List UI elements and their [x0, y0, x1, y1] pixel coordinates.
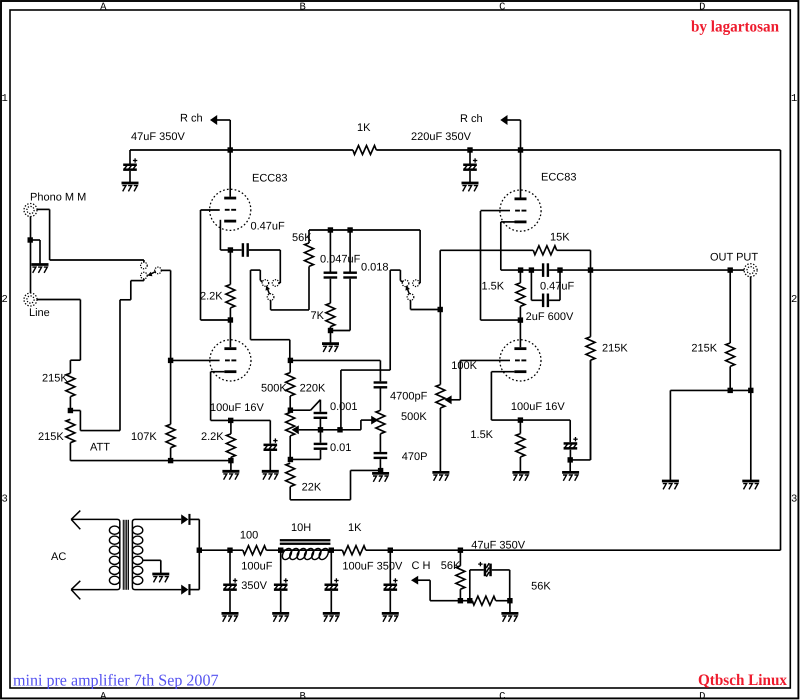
- svg-text:B: B: [300, 691, 306, 700]
- svg-text:AC: AC: [51, 551, 66, 563]
- svg-text:B: B: [300, 1, 306, 13]
- svg-text:220K: 220K: [300, 382, 326, 394]
- svg-text:56K: 56K: [531, 581, 551, 593]
- svg-text:56K: 56K: [441, 560, 461, 572]
- svg-text:2: 2: [1, 294, 7, 306]
- svg-text:A: A: [100, 691, 107, 700]
- svg-text:0.001: 0.001: [330, 401, 358, 413]
- svg-text:Qtbsch Linux: Qtbsch Linux: [698, 672, 787, 689]
- svg-text:3: 3: [1, 493, 7, 505]
- svg-text:2: 2: [791, 294, 797, 306]
- svg-text:R ch: R ch: [180, 113, 203, 125]
- svg-text:4700pF: 4700pF: [390, 390, 428, 402]
- svg-text:R ch: R ch: [460, 113, 483, 125]
- svg-text:C H: C H: [412, 560, 431, 572]
- svg-text:7K: 7K: [311, 310, 325, 322]
- svg-text:C: C: [499, 691, 505, 700]
- svg-text:56K: 56K: [292, 232, 312, 244]
- svg-text:15K: 15K: [550, 232, 570, 244]
- svg-text:ECC83: ECC83: [541, 172, 576, 184]
- svg-text:OUT PUT: OUT PUT: [710, 252, 758, 264]
- svg-text:47uF 350V: 47uF 350V: [131, 131, 185, 143]
- svg-text:3: 3: [791, 493, 797, 505]
- svg-text:0.018: 0.018: [361, 261, 389, 273]
- svg-text:100: 100: [240, 530, 258, 542]
- svg-text:100uF: 100uF: [241, 560, 272, 572]
- svg-text:215K: 215K: [691, 343, 717, 355]
- svg-text:mini pre amplifier 7th Sep 200: mini pre amplifier 7th Sep 2007: [13, 670, 219, 689]
- svg-text:ATT: ATT: [90, 442, 110, 454]
- svg-text:D: D: [699, 1, 705, 13]
- svg-text:ECC83: ECC83: [252, 173, 287, 185]
- svg-text:0.01: 0.01: [330, 442, 351, 454]
- svg-text:A: A: [100, 1, 107, 13]
- svg-text:500K: 500K: [261, 382, 287, 394]
- svg-text:2.2K: 2.2K: [200, 291, 223, 303]
- svg-text:100uF 16V: 100uF 16V: [511, 401, 565, 413]
- svg-text:220uF 350V: 220uF 350V: [411, 131, 472, 143]
- svg-text:215K: 215K: [38, 431, 64, 443]
- svg-text:215K: 215K: [42, 373, 68, 385]
- svg-text:350V: 350V: [241, 580, 267, 592]
- svg-text:500K: 500K: [401, 411, 427, 423]
- svg-text:100K: 100K: [451, 360, 477, 372]
- svg-text:215K: 215K: [602, 343, 628, 355]
- svg-text:22K: 22K: [302, 481, 322, 493]
- svg-text:1K: 1K: [348, 522, 362, 534]
- svg-text:by lagartosan: by lagartosan: [691, 19, 779, 36]
- svg-text:2uF 600V: 2uF 600V: [526, 311, 574, 323]
- svg-text:2.2K: 2.2K: [201, 431, 224, 443]
- svg-text:10H: 10H: [291, 522, 311, 534]
- svg-text:100uF 16V: 100uF 16V: [210, 402, 264, 414]
- svg-text:0.047uF: 0.047uF: [320, 253, 361, 265]
- svg-text:1: 1: [1, 93, 7, 105]
- svg-text:D: D: [699, 691, 705, 700]
- svg-text:470P: 470P: [402, 451, 428, 463]
- svg-text:1.5K: 1.5K: [482, 281, 505, 293]
- svg-text:0.47uF: 0.47uF: [540, 281, 575, 293]
- svg-text:107K: 107K: [131, 431, 157, 443]
- svg-text:1: 1: [791, 93, 797, 105]
- svg-text:100uF 350V: 100uF 350V: [342, 560, 403, 572]
- svg-text:Line: Line: [29, 307, 50, 319]
- svg-text:47uF 350V: 47uF 350V: [471, 539, 525, 551]
- svg-text:Phono M M: Phono M M: [30, 192, 86, 204]
- svg-text:1.5K: 1.5K: [470, 429, 493, 441]
- svg-text:0.47uF: 0.47uF: [251, 221, 286, 233]
- svg-text:C: C: [499, 1, 505, 13]
- svg-text:1K: 1K: [357, 122, 371, 134]
